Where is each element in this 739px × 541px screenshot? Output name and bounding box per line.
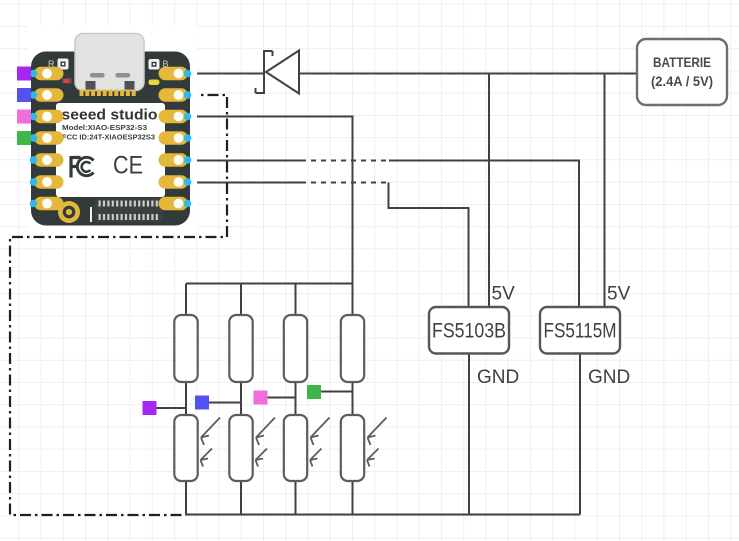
battery BT1 [637, 39, 727, 105]
wire: divider 3 column [295, 284, 297, 515]
servo U2 FS5103B [429, 307, 509, 354]
svg-text:FS5103B: FS5103B [432, 320, 506, 343]
servo U3 FS5115M [540, 307, 620, 354]
board pads right column [159, 67, 192, 211]
diode D1 (schottky) [256, 51, 300, 94]
board PCB [31, 52, 190, 226]
node marker pad3 (pink) [17, 110, 31, 124]
photoresistor LDR1 [174, 415, 220, 481]
silkscreen label [56, 103, 165, 197]
wire: GND of servo U2 to ground bus [468, 354, 470, 515]
castellation teeth [80, 90, 136, 97]
svg-text:5V: 5V [607, 284, 631, 305]
wire: node A3 tap to divider 4 [321, 391, 353, 393]
resistor R3 [284, 315, 307, 382]
wire: servo U3 signal (dashed part) [301, 160, 389, 162]
resistor R1 [174, 315, 197, 382]
wire: servo U2 signal (dashed part) [301, 182, 389, 184]
wire: battery line from board pad 1 to diode cathode [186, 73, 264, 75]
svg-text:(2.4A / 5V): (2.4A / 5V) [651, 74, 713, 89]
wire: node A2 tap to divider 3 [268, 397, 296, 399]
svg-text:Model:XIAO-ESP32-S3: Model:XIAO-ESP32-S3 [62, 125, 147, 132]
wire: 5V drop to servo U2 FS5103B [488, 74, 490, 308]
FCC logo [71, 156, 94, 178]
wire: GND of servo U3 to ground bus [579, 354, 581, 515]
node marker pad2 (blue) [17, 88, 31, 102]
node A2 marker (pink) [254, 391, 268, 405]
wire: GND boundary (dash-dot) from board pad 2 around to ground bus [10, 95, 227, 515]
wire: node A1 tap to divider 2 [209, 402, 241, 404]
wire: 5V drop to servo U3 FS5115M [604, 74, 606, 308]
button B [149, 59, 160, 70]
resistor R4 [341, 315, 364, 382]
component (yellow) [149, 80, 160, 86]
svg-text:seeed studio: seeed studio [62, 108, 158, 124]
resistor R2 [229, 315, 252, 382]
svg-text:GND: GND [588, 367, 630, 388]
svg-text:FS5115M: FS5115M [544, 320, 617, 343]
wire: servo U3 signal to FS5115M [389, 161, 579, 308]
label: GND pin of U3 [588, 367, 630, 388]
wire: divider top bus [186, 283, 353, 285]
bottom connector [95, 199, 163, 223]
MCU board U1: Seeed Studio XIAO ESP32-S3 [28, 26, 197, 232]
wire: divider 2 column [240, 284, 242, 515]
svg-text:BATTERIE: BATTERIE [653, 55, 711, 70]
label: 5V pin of U3 [607, 284, 631, 305]
USB-C connector [75, 34, 144, 91]
antenna connector [58, 201, 80, 223]
node A0 marker (purple) [143, 401, 157, 415]
svg-text:5V: 5V [492, 284, 516, 305]
label: 5V pin of U2 [492, 284, 516, 305]
svg-text:GND: GND [477, 367, 519, 388]
wire: ground bus [186, 514, 580, 516]
node marker pad1 (purple) [17, 67, 31, 81]
svg-text:CE: CE [113, 152, 143, 180]
wire: servo U3 signal from board pad 5 (solid part) [186, 160, 301, 162]
wire: servo U2 signal from board pad 6 (solid part) [186, 182, 301, 184]
wire: servo U2 signal jog to FS5103B [389, 183, 469, 308]
photo white background [28, 26, 197, 232]
wire: node A0 tap to divider 1 [157, 407, 187, 409]
wire: diode anode to battery BT1 [299, 73, 637, 75]
LED (red) [62, 78, 72, 84]
photoresistor LDR3 [284, 415, 330, 481]
wire: divider 1 column [185, 284, 187, 515]
wire: 3V3 from board pad 3 to divider bus [186, 117, 353, 284]
board pads left column [30, 67, 64, 211]
photoresistor LDR2 [229, 415, 275, 481]
svg-text:FCC ID:24T-XIAOESP32S3: FCC ID:24T-XIAOESP32S3 [62, 135, 155, 142]
node A1 marker (blue) [195, 396, 209, 410]
photoresistor LDR4 [341, 415, 387, 481]
node marker pad4 (green) [17, 131, 31, 145]
node A3 marker (green) [307, 385, 321, 399]
label: GND pin of U2 [477, 367, 519, 388]
wire: divider 4 column [352, 284, 354, 515]
